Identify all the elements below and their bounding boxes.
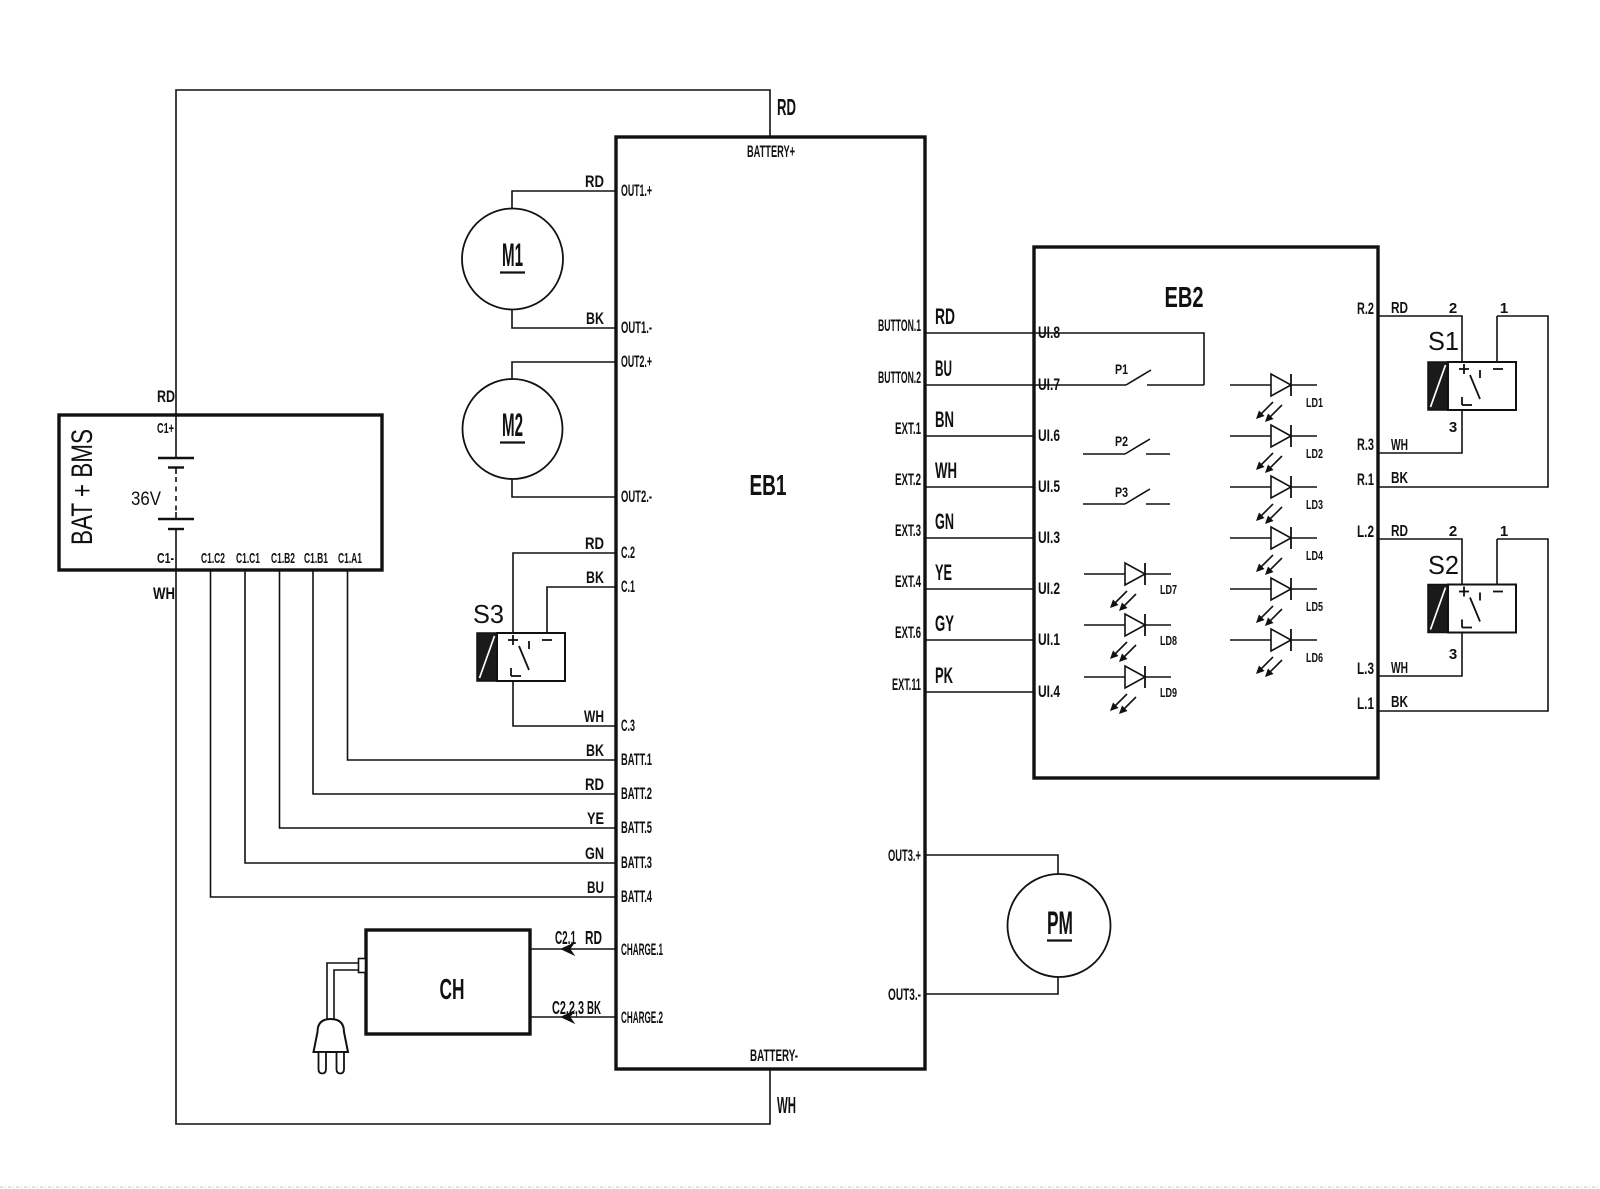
svg-text:EXT.6: EXT.6	[895, 623, 921, 642]
svg-text:C.3: C.3	[621, 716, 635, 735]
svg-text:R.2: R.2	[1357, 299, 1374, 318]
svg-text:UI.8: UI.8	[1038, 323, 1060, 342]
svg-text:RD: RD	[1391, 300, 1408, 317]
svg-text:EXT.1: EXT.1	[895, 419, 921, 438]
svg-text:1: 1	[1500, 300, 1508, 317]
svg-text:EXT.2: EXT.2	[895, 470, 921, 489]
svg-text:2: 2	[1449, 300, 1457, 317]
svg-text:OUT1.-: OUT1.-	[621, 318, 652, 337]
svg-text:BATT.2: BATT.2	[621, 784, 652, 803]
svg-text:CHARGE.1: CHARGE.1	[621, 940, 663, 959]
svg-text:RD: RD	[585, 172, 604, 191]
svg-text:UI.3: UI.3	[1038, 528, 1060, 547]
svg-text:C.1: C.1	[621, 577, 635, 596]
svg-text:P2: P2	[1115, 433, 1128, 449]
svg-text:PM: PM	[1047, 905, 1073, 941]
svg-text:YE: YE	[587, 809, 604, 828]
svg-text:C.2: C.2	[621, 543, 635, 562]
svg-text:UI.5: UI.5	[1038, 477, 1060, 496]
svg-text:EB1: EB1	[750, 470, 787, 502]
svg-text:OUT2.+: OUT2.+	[621, 352, 652, 371]
svg-text:PK: PK	[935, 663, 953, 688]
svg-text:RD: RD	[585, 928, 602, 948]
svg-text:3: 3	[1449, 419, 1457, 436]
svg-text:OUT3.+: OUT3.+	[888, 846, 921, 865]
svg-text:C1-: C1-	[157, 550, 174, 567]
svg-text:WH: WH	[1391, 660, 1408, 677]
svg-text:CHARGE.2: CHARGE.2	[621, 1008, 663, 1027]
svg-text:WH: WH	[777, 1092, 796, 1118]
svg-text:GN: GN	[935, 509, 954, 534]
svg-text:BK: BK	[1391, 470, 1408, 487]
svg-text:R.1: R.1	[1357, 470, 1374, 489]
svg-text:RD: RD	[1391, 523, 1408, 540]
svg-text:BUTTON.2: BUTTON.2	[878, 368, 921, 387]
svg-text:BAT + BMS: BAT + BMS	[66, 429, 99, 545]
svg-text:EXT.4: EXT.4	[895, 572, 921, 591]
svg-text:S2: S2	[1428, 550, 1459, 580]
svg-text:BK: BK	[586, 309, 605, 328]
svg-text:C1.B2: C1.B2	[271, 550, 295, 567]
svg-text:BN: BN	[935, 407, 954, 432]
svg-text:M1: M1	[502, 237, 523, 273]
svg-text:OUT1.+: OUT1.+	[621, 181, 652, 200]
svg-text:CH: CH	[440, 974, 465, 1006]
svg-text:GN: GN	[585, 844, 604, 863]
svg-text:OUT3.-: OUT3.-	[888, 985, 921, 1004]
svg-text:C1.C2: C1.C2	[201, 550, 225, 567]
svg-text:RD: RD	[585, 775, 604, 794]
svg-text:BATTERY-: BATTERY-	[750, 1046, 798, 1065]
svg-text:WH: WH	[1391, 437, 1408, 454]
svg-text:WH: WH	[584, 707, 604, 726]
svg-text:C1+: C1+	[157, 420, 174, 437]
svg-text:P1: P1	[1115, 361, 1128, 377]
svg-text:WH: WH	[153, 584, 175, 603]
svg-text:GY: GY	[935, 611, 954, 636]
svg-text:UI.6: UI.6	[1038, 426, 1060, 445]
svg-text:UI.2: UI.2	[1038, 579, 1060, 598]
svg-text:LD4: LD4	[1306, 549, 1323, 563]
svg-text:C2.1: C2.1	[555, 928, 576, 948]
svg-text:BUTTON.1: BUTTON.1	[878, 316, 921, 335]
svg-text:LD1: LD1	[1306, 396, 1323, 410]
svg-text:LD7: LD7	[1160, 583, 1177, 597]
svg-text:LD8: LD8	[1160, 634, 1177, 648]
svg-text:YE: YE	[935, 560, 952, 585]
svg-text:EXT.11: EXT.11	[892, 675, 921, 694]
svg-text:BK: BK	[586, 741, 605, 760]
svg-text:36V: 36V	[131, 489, 161, 510]
svg-text:BK: BK	[1391, 694, 1408, 711]
svg-text:UI.4: UI.4	[1038, 682, 1060, 701]
svg-text:OUT2.-: OUT2.-	[621, 487, 652, 506]
svg-text:S3: S3	[473, 599, 504, 629]
svg-text:R.3: R.3	[1357, 435, 1374, 454]
svg-text:BATT.5: BATT.5	[621, 818, 652, 837]
svg-text:S1: S1	[1428, 326, 1459, 356]
svg-text:2: 2	[1449, 523, 1457, 540]
svg-text:LD9: LD9	[1160, 686, 1177, 700]
svg-text:RD: RD	[777, 94, 796, 120]
svg-text:LD6: LD6	[1306, 651, 1323, 665]
svg-text:BATT.1: BATT.1	[621, 750, 652, 769]
svg-text:C2.2,3: C2.2,3	[552, 998, 584, 1018]
svg-text:UI.1: UI.1	[1038, 630, 1060, 649]
svg-text:C1.A1: C1.A1	[338, 550, 362, 567]
svg-text:L.2: L.2	[1357, 522, 1374, 541]
svg-text:LD5: LD5	[1306, 600, 1323, 614]
svg-text:1: 1	[1500, 523, 1508, 540]
svg-text:C1.B1: C1.B1	[304, 550, 328, 567]
svg-text:BATT.3: BATT.3	[621, 853, 652, 872]
svg-text:L.1: L.1	[1357, 694, 1374, 713]
svg-text:RD: RD	[157, 387, 175, 406]
svg-text:EB2: EB2	[1165, 282, 1204, 314]
svg-text:LD2: LD2	[1306, 447, 1323, 461]
svg-text:BATTERY+: BATTERY+	[747, 142, 795, 161]
svg-text:BU: BU	[935, 356, 952, 381]
svg-text:BK: BK	[586, 568, 605, 587]
svg-text:P3: P3	[1115, 484, 1128, 500]
svg-text:M2: M2	[502, 407, 523, 443]
svg-text:C1.C1: C1.C1	[236, 550, 260, 567]
svg-text:WH: WH	[935, 458, 957, 483]
svg-text:RD: RD	[935, 304, 955, 329]
svg-text:BK: BK	[587, 998, 601, 1018]
svg-text:UI.7: UI.7	[1038, 375, 1060, 394]
svg-text:EXT.3: EXT.3	[895, 521, 921, 540]
svg-text:BU: BU	[587, 878, 604, 897]
svg-text:L.3: L.3	[1357, 659, 1374, 678]
svg-text:BATT.4: BATT.4	[621, 887, 652, 906]
svg-text:LD3: LD3	[1306, 498, 1323, 512]
svg-text:3: 3	[1449, 646, 1457, 663]
svg-text:RD: RD	[585, 534, 604, 553]
